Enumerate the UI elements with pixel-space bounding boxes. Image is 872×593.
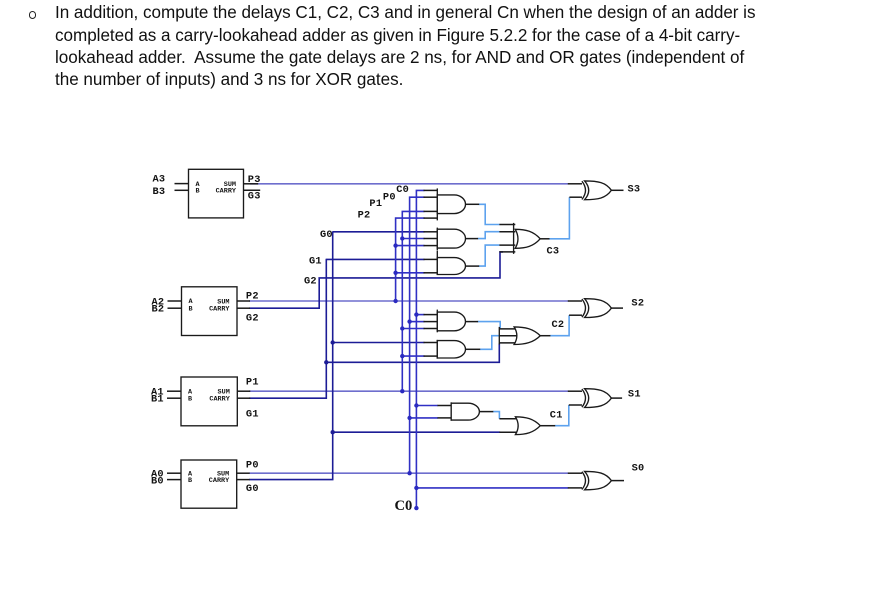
svg-text:P0: P0 — [246, 460, 259, 472]
svg-text:C0: C0 — [395, 498, 413, 514]
svg-text:B: B — [196, 188, 200, 196]
svg-text:CARRY: CARRY — [216, 188, 237, 196]
svg-text:A3: A3 — [153, 174, 166, 186]
svg-text:P1: P1 — [369, 198, 382, 210]
svg-text:CARRY: CARRY — [209, 306, 230, 314]
svg-text:S1: S1 — [628, 389, 641, 401]
svg-text:B: B — [189, 305, 193, 313]
svg-text:G1: G1 — [309, 256, 322, 268]
svg-text:C2: C2 — [552, 319, 565, 331]
svg-text:B0: B0 — [151, 476, 164, 488]
svg-text:G0: G0 — [246, 483, 259, 495]
svg-text:B1: B1 — [151, 394, 164, 406]
svg-text:C1: C1 — [550, 410, 563, 422]
svg-text:P2: P2 — [358, 210, 371, 222]
svg-text:CARRY: CARRY — [209, 477, 230, 485]
svg-text:P3: P3 — [248, 174, 261, 186]
svg-text:S2: S2 — [631, 297, 644, 309]
svg-text:P0: P0 — [383, 192, 396, 204]
svg-text:G0: G0 — [320, 229, 333, 241]
svg-text:G2: G2 — [246, 312, 259, 324]
svg-text:P2: P2 — [246, 291, 259, 303]
svg-text:B3: B3 — [153, 186, 166, 198]
svg-text:P1: P1 — [246, 377, 259, 389]
svg-text:S3: S3 — [628, 183, 641, 195]
svg-text:G3: G3 — [248, 191, 261, 203]
svg-text:B2: B2 — [152, 304, 165, 316]
svg-text:B: B — [188, 395, 192, 403]
svg-text:CARRY: CARRY — [209, 396, 230, 404]
svg-text:G2: G2 — [304, 276, 317, 288]
svg-text:C3: C3 — [547, 246, 560, 258]
svg-text:S0: S0 — [632, 463, 645, 475]
svg-text:C0: C0 — [396, 184, 409, 196]
svg-text:G1: G1 — [246, 408, 259, 420]
svg-text:B: B — [188, 477, 192, 485]
